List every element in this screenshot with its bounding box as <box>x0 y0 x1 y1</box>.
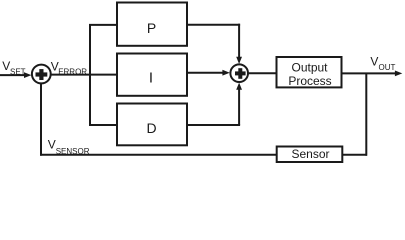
wire branch to D <box>89 124 116 126</box>
svg-text:V: V <box>48 138 56 152</box>
arrowhead into summing junction S1 <box>24 72 31 78</box>
block Output Process <box>277 57 342 87</box>
svg-text:SET: SET <box>10 68 26 77</box>
svg-text:P: P <box>147 20 156 36</box>
svg-text:Process: Process <box>288 74 331 88</box>
label V_SET <box>2 59 25 77</box>
wire output <box>342 72 396 74</box>
label V_ERROR <box>51 60 88 77</box>
wire S2 to Output Process <box>248 72 277 74</box>
wire branch vertical <box>89 25 91 125</box>
wire I output with arrowhead <box>188 72 224 74</box>
wire feedback vertical right <box>365 73 367 155</box>
arrowhead output <box>395 71 402 77</box>
wire P output vertical into S2 <box>238 24 240 58</box>
arrowhead D into S2 bottom <box>236 83 242 90</box>
wire feedback vertical left into S1 <box>40 84 42 156</box>
wire D output horizontal <box>188 124 240 126</box>
svg-text:Sensor: Sensor <box>291 147 329 161</box>
svg-text:Output: Output <box>291 60 328 74</box>
wire error signal S1 to I block <box>51 74 116 76</box>
arrowhead I into S2 left <box>222 70 229 76</box>
svg-text:D: D <box>146 120 156 136</box>
label Output Process <box>288 60 331 88</box>
wire P output horizontal <box>188 24 240 26</box>
svg-text:SENSOR: SENSOR <box>56 147 90 156</box>
block I <box>117 54 187 96</box>
wire branch to P <box>89 24 116 26</box>
wire feedback to sensor <box>343 154 367 156</box>
wire feedback bottom <box>40 154 276 156</box>
summing junction S2 plus sign <box>235 68 246 79</box>
svg-text:OUT: OUT <box>379 63 396 72</box>
summing junction S1 circle <box>32 65 51 84</box>
block Sensor <box>277 147 343 163</box>
label V_OUT <box>370 55 395 73</box>
svg-text:V: V <box>370 55 378 69</box>
arrowhead P into S2 top <box>236 57 242 64</box>
summing junction S2 circle <box>230 64 248 82</box>
wire D output vertical into S2 <box>238 89 240 125</box>
block D <box>117 104 187 146</box>
block P <box>117 3 187 46</box>
label V_SENSOR <box>48 138 90 156</box>
svg-text:I: I <box>149 70 153 87</box>
wire Vset input <box>0 74 25 76</box>
summing junction S1 plus sign <box>36 69 48 80</box>
